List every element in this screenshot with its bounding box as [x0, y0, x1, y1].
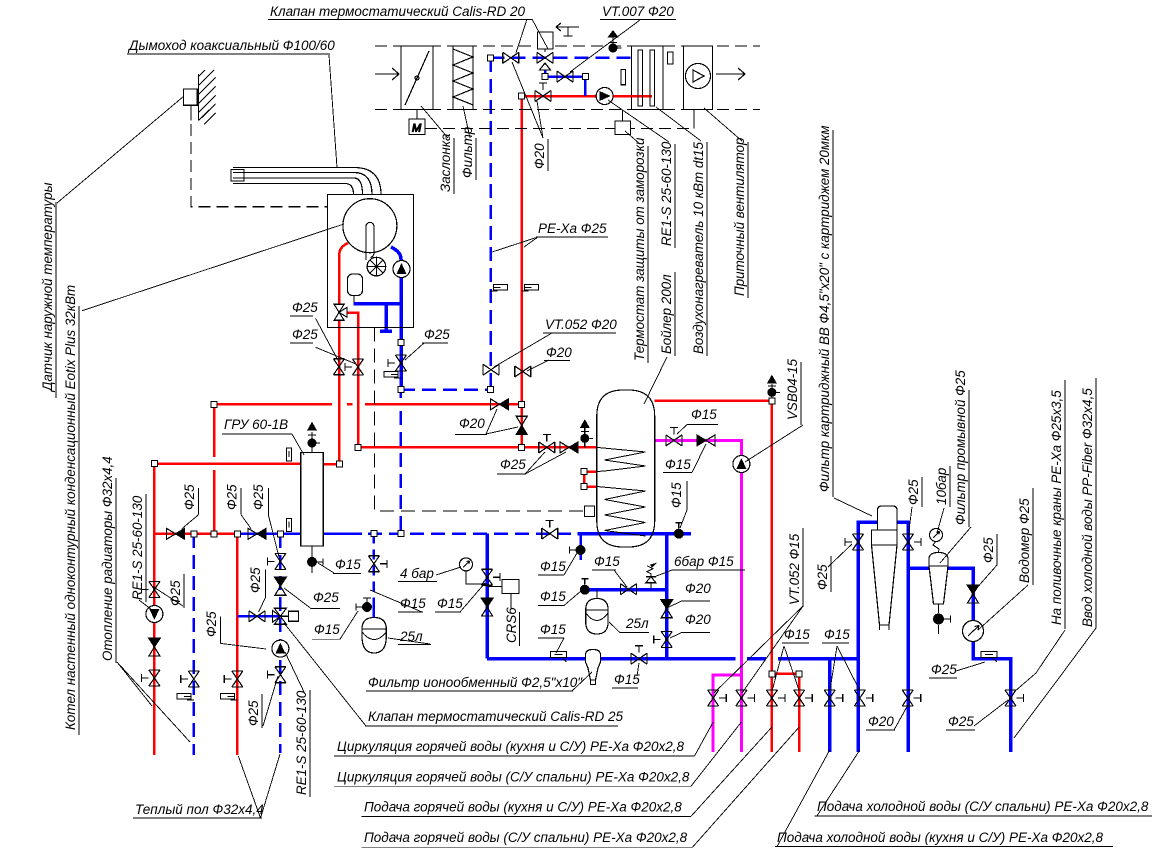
- recirc pump VSB04-15: [733, 456, 750, 473]
- svg-text:RE1-S 25-60-130: RE1-S 25-60-130: [294, 690, 309, 795]
- makeup valve: [482, 569, 501, 585]
- svg-text:Ф15: Ф15: [400, 596, 426, 611]
- DHW expansion vessel 25L: [586, 599, 608, 635]
- vessel2 line valve: [621, 584, 637, 595]
- floor supply valve: [224, 671, 243, 687]
- svg-text:Ф25: Ф25: [225, 484, 240, 510]
- svg-text:Ф15: Ф15: [824, 627, 850, 642]
- svg-text:Ф25: Ф25: [424, 327, 450, 342]
- GRU bottom drain ball: [307, 557, 323, 567]
- wire: magenta branch bedroom: [713, 675, 741, 752]
- vessel2 ball valve: [580, 579, 590, 595]
- chimney end cap: [231, 170, 244, 182]
- leader F25 filter right: [908, 507, 912, 538]
- leader chimney label: [329, 55, 337, 168]
- leader cartridge filter label: [834, 498, 872, 516]
- leader RE1S left: [139, 600, 152, 610]
- leader F15 F15 makeup: [370, 583, 485, 612]
- strainer on boiler return: [384, 372, 401, 379]
- flush filter drain stem: [938, 625, 940, 634]
- Calis-RD 25 thermostatic valve: [272, 608, 298, 624]
- DHW riser air vent: [767, 376, 780, 401]
- valve cold kitchen: [854, 690, 873, 706]
- svg-text:VT.052 Ф20: VT.052 Ф20: [545, 317, 617, 332]
- cartridge filter valve left: [845, 534, 864, 550]
- leader outdoor sensor: [57, 96, 184, 203]
- chimney coaxial: [233, 168, 381, 195]
- svg-text:Ф25: Ф25: [168, 580, 183, 606]
- svg-text:PE-Xa Ф25: PE-Xa Ф25: [538, 221, 607, 236]
- wire: magenta recirculation from tank: [655, 440, 742, 751]
- pressure reducer gauge connection: [466, 571, 487, 584]
- wire: red coil jumper at tank left: [584, 472, 597, 487]
- svg-text:Ф15: Ф15: [691, 407, 717, 422]
- wire: red upper header y=404: [214, 403, 522, 406]
- leader 6bar: [654, 570, 672, 577]
- svg-text:Ф15: Ф15: [784, 627, 810, 642]
- wire: red DHW jumper y=673.8: [772, 674, 799, 752]
- fan control drop: [693, 110, 695, 129]
- wire: red stub inside heater: [632, 95, 653, 98]
- node boiler drop1 at GRU: [336, 461, 342, 467]
- freeze protection thermostat box: [615, 121, 631, 135]
- air vent before tank: [580, 420, 593, 447]
- heating expansion vessel 25L: [362, 618, 386, 654]
- svg-text:Котел настенный одноконтурный: Котел настенный одноконтурный конденсаци…: [63, 285, 78, 730]
- wire: red supply header y=463.5 left of GRU: [154, 462, 300, 465]
- leader teplypol: [238, 754, 280, 818]
- leader CRS6: [511, 594, 520, 647]
- boiler expansion vessel: [348, 274, 363, 296]
- tank sensor dashed cable: [374, 328, 584, 511]
- leader F25 boiler drop2: [316, 347, 356, 364]
- leader cold2: [777, 750, 830, 847]
- valve cold bedroom: [824, 690, 843, 706]
- leader F15 tank drain ball: [564, 553, 577, 575]
- svg-text:Ф25: Ф25: [815, 564, 830, 590]
- svg-text:CRS6: CRS6: [504, 607, 519, 643]
- svg-text:Подача горячей воды (кухня и С: Подача горячей воды (кухня и С/У) PE-Xa …: [364, 800, 682, 815]
- svg-text:Ф15: Ф15: [437, 596, 463, 611]
- node supply header: [151, 461, 157, 467]
- svg-text:Ф15: Ф15: [614, 672, 640, 687]
- flush filter drain ball: [933, 614, 951, 625]
- valve on boiler red drop 1: [333, 359, 344, 375]
- leader F20 check667: [668, 601, 682, 608]
- wire: red floor heating supply riser x=237.3: [236, 534, 239, 755]
- svg-text:Ф25: Ф25: [204, 611, 219, 637]
- leader F15 strainer: [556, 638, 564, 653]
- floor pump: [272, 640, 289, 657]
- leader 25l vessel2: [609, 622, 620, 633]
- node header y=533.6 x=400.9: [398, 531, 404, 537]
- svg-text:VT.007 Ф20: VT.007 Ф20: [602, 4, 674, 19]
- svg-text:M: M: [412, 123, 422, 135]
- check valve lower header blue: [248, 528, 266, 539]
- wire: blue dashed AHU return riser x=490.5: [489, 58, 492, 390]
- valve hot kitchen: [766, 690, 785, 706]
- wire: blue dashed jumper y=389.5: [401, 388, 491, 391]
- wire: blue vessel2 line y=589.7: [585, 588, 667, 592]
- makeup check valve: [481, 598, 493, 616]
- floor return: check: [274, 577, 286, 595]
- svg-text:Ф25: Ф25: [251, 484, 266, 510]
- leader vodomer: [978, 585, 1028, 630]
- leader PE-Xa: [492, 237, 538, 252]
- leader circ1: [695, 722, 714, 756]
- svg-text:Циркуляция горячей воды (кухня: Циркуляция горячей воды (кухня и С/У) PE…: [337, 739, 684, 754]
- leader F15 valve589: [614, 570, 627, 587]
- leader boiler label: [82, 224, 344, 311]
- svg-text:Ф25: Ф25: [906, 479, 921, 505]
- water meter check valve: [967, 585, 979, 603]
- svg-text:Ф15: Ф15: [540, 559, 566, 574]
- leader 10bar: [937, 508, 944, 533]
- svg-text:Ф25: Ф25: [248, 567, 263, 593]
- node jumper right: [488, 386, 494, 392]
- AHU: air vent: [609, 31, 622, 53]
- AHU duct dashed top: [375, 45, 760, 47]
- node blue elbow left: [542, 74, 548, 80]
- leader Calis-RD 20: [532, 19, 548, 49]
- node upper header left end: [211, 401, 217, 407]
- damper: [401, 46, 433, 110]
- leader F25 tank feed pair: [525, 452, 566, 474]
- wire: blue filter loop left leg x=858: [858, 522, 908, 752]
- safety valve 6 bar: [646, 563, 657, 590]
- leader F25 strainer: [956, 662, 985, 671]
- node x=237.3: [234, 531, 240, 537]
- outdoor sensor dashed cable: [191, 124, 328, 207]
- svg-text:Ф25: Ф25: [292, 300, 318, 315]
- leader F25 boiler drop: [316, 319, 339, 363]
- svg-text:Ф20: Ф20: [459, 416, 485, 431]
- svg-text:Ф25: Ф25: [948, 714, 974, 729]
- leader VSB04-15: [745, 425, 803, 462]
- water meter: [963, 621, 984, 642]
- leader 25l vessel1: [388, 638, 430, 644]
- wire: blue flush filter line y=563: [908, 568, 1011, 752]
- wire: red tank feed line y=447.4: [358, 446, 597, 449]
- GRU hydraulic separator: [301, 452, 323, 546]
- node header y=533.6 x=373.9: [371, 531, 377, 537]
- svg-text:Ф25: Ф25: [500, 457, 526, 472]
- svg-text:4 бар: 4 бар: [400, 566, 434, 581]
- node boiler return: [398, 386, 404, 392]
- valve on boiler red drop 2 with handle: [345, 359, 364, 375]
- wire: red DHW riser x=771.9: [771, 401, 774, 752]
- GRU top vent stem: [311, 446, 313, 452]
- heater side pocket: [668, 52, 674, 64]
- leader F15 recirc check: [692, 444, 706, 473]
- node jumper 1: [769, 671, 775, 677]
- magenta: check valve: [697, 435, 715, 446]
- svg-text:Дымоход коаксиальный Ф100/60: Дымоход коаксиальный Ф100/60: [127, 38, 335, 53]
- wire: red boiler supply internal and drop 1: [339, 243, 348, 464]
- svg-text:Заслонка: Заслонка: [438, 134, 453, 193]
- leader 4bar: [436, 567, 461, 575]
- bottom header strainer: [551, 652, 567, 662]
- duct sensor: [621, 69, 626, 84]
- svg-text:Ф20: Ф20: [685, 581, 711, 596]
- leader VT.007: [570, 20, 640, 72]
- leader cold1: [817, 750, 860, 816]
- svg-text:10бар: 10бар: [934, 467, 949, 505]
- wire: red radiator supply riser x=154.4: [153, 464, 156, 756]
- thermometer on return header: [287, 519, 292, 532]
- AHU duct dashed bottom: [375, 109, 760, 111]
- wire: blue makeup drop x=487.1: [485, 534, 489, 659]
- supply fan box: [684, 46, 713, 110]
- rotated labels: [40, 125, 1096, 797]
- svg-text:Ф15: Ф15: [669, 482, 684, 508]
- svg-text:Ввод холодной воды PP-Fiber Ф3: Ввод холодной воды PP-Fiber Ф32х4,5: [1080, 388, 1095, 627]
- check valve vertical on AHU riser: [516, 416, 527, 434]
- svg-text:Подача горячей воды (С/У спаль: Подача горячей воды (С/У спальни) PE-Xa …: [364, 830, 688, 845]
- DHW riser check: [661, 600, 673, 618]
- svg-text:Ф25: Ф25: [182, 484, 197, 510]
- AHU inlet arrow: [375, 68, 399, 80]
- leader RE1-S AHU: [608, 100, 669, 142]
- radiator valve 2: [141, 670, 160, 686]
- svg-text:VT.052 Ф15: VT.052 Ф15: [787, 533, 802, 605]
- valve on AHU supply riser: [515, 366, 531, 377]
- outdoor sensor stem: [190, 105, 192, 120]
- leader F15 tank drain: [680, 510, 687, 528]
- node upper header right end: [519, 401, 525, 407]
- svg-text:Фильтр ионообменный Ф2,5"х10": Фильтр ионообменный Ф2,5"х10": [368, 675, 583, 690]
- leader F25 boiler return: [405, 343, 424, 360]
- expansion vessel ball valve: [356, 598, 372, 612]
- radiator return valve: [181, 671, 200, 687]
- AHU control dashed line: [425, 128, 694, 130]
- svg-text:Ф20: Ф20: [685, 612, 711, 627]
- leader F20 riser: [527, 360, 549, 371]
- svg-text:25л: 25л: [625, 616, 649, 631]
- svg-text:Клапан термостатический Calis-: Клапан термостатический Calis-RD 25: [368, 709, 624, 724]
- leader F25 floorbottom: [263, 676, 278, 726]
- node tank feed junction: [519, 444, 525, 450]
- leader otoplenie: [117, 662, 190, 742]
- leader F15 pair manifold: [772, 646, 859, 690]
- node coil jumper bottom: [581, 484, 587, 490]
- check valve on upper header: [490, 399, 508, 410]
- wire: red tank top DHW line y=400.9: [655, 400, 772, 403]
- wire: blue boiler return internal: [391, 247, 401, 389]
- tank coil 2: [597, 487, 646, 537]
- leader Filtr AHU: [463, 106, 470, 138]
- leader boyler label: [644, 357, 667, 404]
- svg-text:Ф25: Ф25: [246, 700, 261, 726]
- valve main inlet: [1005, 690, 1024, 706]
- inlet strainer: [981, 652, 997, 662]
- node blue elbow right: [582, 74, 588, 80]
- svg-text:Приточный вентилятор: Приточный вентилятор: [732, 137, 747, 296]
- expansion line valve: [368, 556, 387, 572]
- AHU: valve on blue dashed: [503, 52, 519, 63]
- leader F25 filter left: [828, 544, 852, 567]
- wire: blue dashed boiler return drop to header: [400, 390, 403, 534]
- svg-text:Отопление радиаторы Ф32х4,4: Отопление радиаторы Ф32х4,4: [100, 456, 115, 661]
- Calis-RD 20 actuator box: [538, 32, 554, 49]
- svg-text:Ф15: Ф15: [594, 554, 620, 569]
- leader F15 GRU drain: [318, 563, 334, 573]
- GRU top air vent: [308, 423, 321, 448]
- leader flush filter label: [940, 527, 971, 563]
- svg-text:RE1-S 25-60-130: RE1-S 25-60-130: [130, 495, 145, 600]
- wire: blue dashed return header y=533.6 GRU to tank: [323, 532, 362, 535]
- GRU bottom drain: [311, 546, 313, 573]
- svg-text:Фильтр картриджный ВВ Ф4,5"х20: Фильтр картриджный ВВ Ф4,5"х20" с картри…: [817, 125, 832, 492]
- flush filter gauge 10bar: [930, 529, 943, 542]
- svg-text:Фильтр: Фильтр: [460, 126, 475, 178]
- svg-text:Ф20: Ф20: [868, 714, 894, 729]
- floor supply strainer: [220, 694, 237, 701]
- check valve lower header red: [167, 528, 185, 539]
- valve on boiler blue return: [388, 355, 407, 371]
- node AHU red corner: [519, 93, 525, 99]
- wire: blue dashed AHU mixing line y=57.8: [491, 57, 632, 60]
- leader VT052: [494, 333, 552, 367]
- wire: blue dashed floor return riser x=280.4: [279, 534, 282, 753]
- radiator circuit: valve: [141, 582, 160, 598]
- thermometer on supply header: [287, 448, 292, 461]
- makeup gauge 4 bar: [460, 558, 473, 571]
- tank bottom service ball: [674, 523, 684, 539]
- leader F25 check meter: [975, 565, 997, 590]
- wire: blue AHU coil return: [545, 70, 585, 96]
- ion exchange filter: [586, 650, 601, 681]
- magenta: tank recirc valve: [666, 427, 682, 446]
- leader vozduh: [656, 107, 701, 141]
- svg-text:Циркуляция горячей воды (С/У с: Циркуляция горячей воды (С/У спальни) PE…: [337, 770, 690, 785]
- node boiler return below box: [398, 339, 404, 345]
- leader F20 check pair: [486, 409, 518, 434]
- wire: blue lower header right part to GRU: [237, 533, 300, 536]
- leader vvod: [1014, 628, 1096, 738]
- node coil jumper top: [581, 469, 587, 475]
- svg-text:6бар Ф15: 6бар Ф15: [674, 554, 734, 569]
- floor return valve bottom: [267, 667, 286, 683]
- coupling on AHU return riser: [491, 285, 508, 292]
- svg-text:Ф15: Ф15: [335, 557, 361, 572]
- wire: red lower header left part: [154, 533, 237, 536]
- leader thermostat: [625, 131, 640, 144]
- wire: blue solid tank bottom line: [577, 532, 691, 536]
- radiator pump: [146, 606, 163, 623]
- leader F20 manifold: [894, 703, 909, 730]
- valve on tank feed: [539, 434, 555, 453]
- leader F15 bottomvalve: [637, 663, 639, 676]
- leader F25 manifold: [974, 700, 1008, 726]
- leader calis25 label: [284, 623, 366, 726]
- svg-text:Воздухонагреватель 10 кВт dt15: Воздухонагреватель 10 кВт dt15: [691, 141, 706, 354]
- leader hot1: [691, 727, 772, 816]
- wire: red GRU right top port to drop1: [323, 463, 339, 466]
- tank temp sensor box: [585, 506, 595, 517]
- svg-text:Теплый пол Ф32х4,4: Теплый пол Ф32х4,4: [135, 802, 264, 817]
- AHU: circulation pump: [596, 88, 613, 105]
- svg-text:RE1-S 25-60-130: RE1-S 25-60-130: [659, 141, 674, 246]
- DHW riser valve: [654, 631, 673, 647]
- svg-text:VSB04-15: VSB04-15: [785, 358, 800, 420]
- CRS6 dosing box: [502, 580, 519, 594]
- svg-text:Ф20: Ф20: [546, 345, 572, 360]
- valve circulation bedroom: [736, 690, 755, 706]
- tank drain ball: [570, 545, 586, 555]
- flush filter: [929, 553, 948, 605]
- svg-text:Бойлер 200л: Бойлер 200л: [659, 274, 674, 354]
- cartridge filter valve right: [903, 534, 922, 550]
- boiler burner circle: [343, 199, 397, 253]
- leader F25 radiator valve: [152, 586, 183, 606]
- svg-text:Водомер Ф25: Водомер Ф25: [1017, 498, 1032, 583]
- svg-text:Ф15: Ф15: [665, 457, 691, 472]
- node jumper 2: [796, 671, 802, 677]
- wire: blue dashed radiator return riser x=193.8: [193, 534, 196, 755]
- svg-text:Подача холодной воды (С/У спал: Подача холодной воды (С/У спальни) PE-Xa…: [817, 799, 1149, 814]
- leader F15 recirc: [677, 425, 687, 434]
- node x=214: [211, 531, 217, 537]
- DHW tank boiler 200L: [597, 390, 655, 547]
- svg-text:Подача холодной воды (кухня и: Подача холодной воды (кухня и С/У) PE-Xa…: [777, 830, 1104, 845]
- svg-text:Ф15: Ф15: [540, 589, 566, 604]
- svg-text:Клапан термостатический Calis-: Клапан термостатический Calis-RD 20: [270, 4, 526, 19]
- boiler fan: [367, 257, 386, 276]
- leader F25 lower header checks: [182, 515, 279, 557]
- leader F20 valve667: [670, 633, 682, 638]
- node blue dashed top: [488, 55, 494, 61]
- leader RE1S floor: [285, 652, 305, 694]
- svg-text:Датчик наружной температуры: Датчик наружной температуры: [40, 182, 55, 393]
- wire: red boiler drop 2 branch: [341, 313, 358, 448]
- leader Zaslonka: [421, 106, 448, 138]
- svg-text:Ф20: Ф20: [532, 143, 547, 169]
- leader VT052-15: [714, 606, 803, 693]
- valve garden line: [902, 690, 921, 706]
- leader polivochnye: [1014, 630, 1065, 692]
- leader F20 AHU: [512, 62, 543, 138]
- wire: blue tank drain stub x=580.5: [579, 534, 582, 560]
- leader F25 floorreturn valve: [259, 598, 266, 612]
- leader fan: [704, 108, 742, 141]
- leader F25 mixing: [221, 643, 267, 649]
- check valve on tank feed: [560, 442, 578, 453]
- radiator check valve: [148, 638, 160, 656]
- svg-text:ГРУ 60-1В: ГРУ 60-1В: [224, 417, 288, 432]
- node boiler drop2 corner: [355, 444, 361, 450]
- AHU: valve on red: [535, 83, 551, 102]
- leader circ2: [691, 722, 741, 786]
- wire: blue stub cold kitchen x=829.7: [828, 659, 832, 752]
- air heater box: [632, 46, 664, 110]
- node x=280.4: [277, 531, 283, 537]
- svg-text:Ф15: Ф15: [314, 622, 340, 637]
- coupling on AHU supply riser: [522, 285, 539, 292]
- wire: blue expansion vessel line x=374: [373, 534, 376, 600]
- svg-text:Ф25: Ф25: [931, 662, 957, 677]
- wire: blue bottom header y=658.7: [487, 657, 860, 661]
- wire: blue DHW cold riser x=666.7: [665, 534, 669, 659]
- header valve y=533.6: [542, 521, 558, 540]
- cartridge filter BB: [878, 506, 898, 530]
- wire: red drop x=214 from upper header to lower header: [213, 404, 216, 534]
- wire: blue floor mixing bypass y=616.3: [237, 615, 280, 618]
- valve hot bedroom: [794, 690, 813, 706]
- AHU: valve VT.007 on blue: [557, 71, 573, 82]
- wall with hatching: [199, 70, 216, 125]
- actuator fail-open arrow symbol: [556, 23, 579, 36]
